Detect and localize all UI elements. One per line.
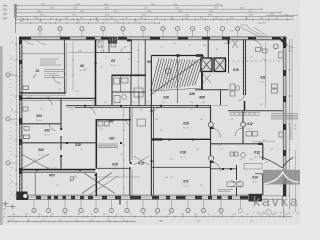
left grid bubbles — [6, 73, 10, 77]
door arc room010 south — [238, 95, 244, 101]
shaft box east — [214, 58, 226, 72]
dim circle 3 — [14, 11, 17, 14]
bottom wall column — [88, 196, 93, 200]
grid bubble wall 1 — [208, 122, 213, 127]
grid bubble bottom — [111, 200, 113, 208]
right wall dim extension — [283, 200, 285, 218]
bottom wall column — [54, 196, 58, 200]
wall x65 rooms 01-08 — [63, 40, 65, 93]
top dimension leader stack — [15, 4, 17, 33]
fixture room204 left — [23, 107, 28, 111]
grid bubble top — [175, 27, 179, 31]
top wall pier — [272, 37, 279, 40]
grid bubble bottom — [171, 200, 173, 208]
stair run diagonal — [151, 59, 202, 96]
bottom wall column — [152, 196, 159, 200]
shaft room door swings — [203, 74, 211, 83]
bottom wall column — [228, 196, 232, 200]
grid bubble bottom — [95, 200, 97, 208]
radiator left wall 1 — [23, 86, 29, 90]
left corridor wall y170.5 — [20, 169, 96, 171]
room 016 big X door mark — [82, 173, 112, 194]
left wall pier — [19, 95, 22, 100]
door 013 — [211, 162, 221, 172]
partition x35 room P07 — [34, 172, 36, 196]
grid bubble top — [161, 27, 165, 31]
dimension line — [17, 12, 281, 14]
top wall pier — [118, 37, 127, 40]
dim line room011 — [265, 42, 267, 108]
grid bubble top — [80, 27, 84, 31]
shaft box west — [201, 58, 212, 72]
pier wall x228 top — [228, 40, 230, 45]
stair wall pier — [196, 54, 203, 57]
right wing wall y111 — [228, 110, 283, 112]
wall x220.5 below shafts — [220, 90, 222, 106]
wall x228.5 shaft east — [228, 40, 230, 74]
corner leader text — [287, 46, 295, 48]
shaft south wall x202 — [201, 72, 203, 91]
stair south landing line — [151, 88, 203, 91]
grid bubble bottom — [157, 200, 159, 208]
fixture right wall — [279, 132, 283, 137]
dimension line — [17, 8, 262, 10]
grid bubble top — [190, 27, 194, 31]
bottom wall column — [115, 196, 121, 200]
left wall inner sill — [22, 44, 24, 196]
level mark 1 — [3, 203, 9, 205]
counter boxes y112.5 — [230, 112, 234, 115]
bottom wall column — [240, 196, 248, 200]
dim circle 4 — [14, 15, 17, 18]
corridor door X mark — [134, 156, 150, 165]
grid bubble bottom — [48, 200, 50, 208]
rooms 012/013 wall y144 — [211, 143, 264, 145]
window arcs top-left — [24, 40, 34, 45]
note text block room 01 — [40, 58, 59, 60]
top wall pier — [86, 37, 95, 40]
grid bubble x243 — [241, 122, 246, 127]
fixture room203 — [24, 127, 29, 131]
bottom wall column — [130, 196, 141, 200]
chain dimension line top — [16, 19, 294, 21]
grid bubble bottom — [187, 200, 189, 208]
wall x109 top rooms — [108, 40, 110, 53]
top wall pier — [222, 37, 230, 40]
wall x95.5 upper — [95, 40, 97, 107]
wall x96.5 lower — [95, 120, 97, 169]
top wall pier — [248, 37, 256, 40]
wall x263 lower-right — [262, 144, 264, 160]
left exterior wall — [19, 37, 22, 200]
mid room wall y168.5 — [96, 167, 131, 169]
corridor dim line x138.5 — [138, 42, 140, 103]
wall x145 corridor west upper — [144, 40, 146, 107]
right dimension chains — [289, 39, 291, 210]
dimension line — [17, 15, 293, 17]
right wall pier — [283, 70, 286, 76]
left margin tiny marks — [3, 5, 8, 7]
shaft feeder wall x208 — [207, 40, 209, 59]
radiator room 013 — [227, 182, 243, 187]
door symbol room 013 — [230, 152, 234, 156]
note text top-right — [271, 113, 298, 115]
bottom wall column — [48, 196, 52, 200]
corner column block — [17, 192, 28, 201]
right wall pier — [283, 96, 286, 102]
top wall pier — [60, 37, 70, 40]
wall x210.5 right wing — [210, 106, 212, 196]
double door arcs above watermark — [261, 157, 282, 168]
grid bubble bottom — [126, 200, 128, 208]
door arc room203 — [49, 124, 56, 131]
door arc x243 — [235, 128, 243, 136]
bottom wall column — [195, 196, 202, 200]
bottom-right corner block — [249, 194, 263, 202]
left rooms wall y143 — [20, 142, 96, 144]
partition y52.5 rooms05 — [96, 52, 131, 54]
top wall sill line — [20, 39, 286, 41]
left wall pier — [19, 60, 22, 64]
chain dimension bottom 2 — [8, 221, 136, 223]
top exterior wall — [20, 37, 286, 40]
bath cell dividers — [120, 76, 122, 93]
door arcs top-center rooms — [98, 47, 104, 53]
top wall pier — [178, 37, 188, 40]
dim circle 1 — [14, 4, 17, 7]
corridor wall y106 — [66, 105, 211, 107]
left dimension chain — [15, 37, 17, 200]
watermark tagline circle — [266, 209, 272, 215]
bottom wall column — [102, 196, 107, 200]
corner grid bubble — [23, 193, 28, 198]
grid bubble top — [205, 27, 209, 31]
grid bubble top — [58, 27, 62, 31]
wc fixtures top — [98, 41, 103, 47]
wall x61 mid-left — [60, 98, 62, 128]
top wall pier — [202, 37, 210, 40]
label 01 arrow — [33, 74, 36, 78]
left rooms wall y124 — [20, 123, 61, 125]
right wall pier — [283, 37, 286, 48]
door arc top-right room — [251, 40, 262, 51]
door jamb blocks — [60, 128, 62, 130]
right wall pier — [283, 178, 286, 196]
wall x236.5 room014 — [236, 165, 238, 180]
beam dashed line rooms 010-011 — [228, 60, 283, 62]
grid bubble room011 — [274, 44, 279, 49]
room dim line x123.5 — [123, 108, 125, 195]
wall x130 lower double — [129, 107, 131, 162]
door gap arcs corridor — [88, 107, 95, 114]
chain dimension bottom 1 — [8, 216, 292, 218]
door symbol P07 — [70, 177, 74, 181]
door arc left room y75 — [53, 75, 61, 83]
dim circle 2 — [14, 8, 17, 11]
tiny text room014 — [218, 189, 233, 191]
room08 dim line x73 — [72, 42, 74, 90]
bottom wall column — [176, 196, 186, 200]
corridor-stair wall x151.5 — [150, 56, 152, 196]
left wing wall y98.3 — [20, 97, 96, 99]
wc duct block top — [108, 37, 117, 43]
left wall pier — [19, 37, 22, 44]
top-right leader annotations — [240, 27, 260, 37]
bottom wall column — [166, 196, 170, 200]
top-right corner chamfer — [279, 38, 287, 46]
rooms 018/017 wall y167.5 — [151, 166, 210, 168]
grid bubble top — [235, 27, 239, 31]
grid bubble top — [38, 27, 42, 31]
level mark 2 — [10, 206, 16, 208]
grid bubble top — [141, 27, 145, 31]
left scan edge band — [0, 46, 3, 225]
fixtures 012 — [246, 132, 252, 137]
right wall pier — [283, 124, 286, 130]
grid bubble bottom — [203, 200, 205, 208]
stair landing wall x177.5 — [177, 57, 179, 103]
bath cluster wall y75.5 — [112, 74, 147, 76]
right exterior wall — [283, 37, 286, 196]
door arc room204 — [45, 98, 52, 105]
wall y174 stub — [255, 173, 263, 175]
grid bubble bottom — [142, 200, 144, 208]
bottom wall column — [208, 196, 212, 200]
left wall pier — [19, 139, 22, 145]
top wall pier — [101, 37, 108, 40]
left wing wall y93 — [20, 92, 66, 94]
interior dim line y52.3 — [68, 51, 110, 53]
door room201 — [124, 120, 130, 127]
stair wall pier mid — [176, 54, 179, 57]
left wall pier — [19, 168, 22, 174]
radiator left wall 2 — [24, 135, 30, 139]
door swing room010 top — [232, 40, 238, 49]
sink rects room011 top — [256, 48, 261, 52]
bottom wall column — [217, 196, 222, 200]
bottom wall column — [20, 196, 29, 200]
right wall pier — [283, 150, 286, 156]
door X room014 — [231, 180, 241, 188]
counter room014 — [244, 164, 262, 170]
grid bubble top — [121, 27, 125, 31]
bottom wall column — [71, 196, 75, 200]
grid bubble wall 2 — [209, 156, 214, 161]
bath fixtures — [114, 78, 120, 84]
bath wall x112 — [111, 75, 113, 106]
bottom wall column — [80, 196, 84, 200]
watermark bird mark — [264, 172, 298, 184]
partition y53.3 left room faint — [20, 52, 64, 54]
left wall pier — [19, 192, 22, 200]
bottom wall column — [63, 196, 67, 200]
dimension line — [17, 5, 222, 7]
bath partition y92 — [112, 91, 145, 93]
bottom wall column — [36, 196, 41, 200]
grid bubble bottom — [33, 200, 35, 208]
stair treads hatch — [151, 58, 160, 91]
stair-shaft connector x203 — [202, 56, 204, 59]
watermark logo plate — [263, 170, 300, 185]
wall x131.5 upper — [130, 40, 132, 76]
stair north wall — [151, 55, 203, 57]
wall x243 room 012 — [242, 111, 244, 122]
bottom wall inner sill — [20, 194, 262, 196]
grid bubble bottom — [220, 200, 222, 208]
secondary chain dimension top — [16, 22, 161, 24]
shaft room south wall y90 — [195, 89, 229, 91]
room 202 X door mark — [21, 154, 49, 169]
fixture below corner — [279, 52, 284, 58]
grid bubble top — [101, 27, 105, 31]
bottom exterior wall — [20, 196, 262, 199]
door mark x120 bottom — [119, 200, 121, 205]
stair direction bubble — [165, 68, 170, 73]
grid bubble bottom — [80, 200, 82, 208]
fixtures room011 — [272, 84, 278, 88]
note text block room 201 — [98, 143, 119, 145]
grid bubble top — [220, 27, 224, 31]
grid bubble bottom extra — [240, 200, 242, 208]
door 012 — [211, 128, 221, 138]
pier top wall x127-131 — [127, 39, 131, 41]
room 010/011 dividing wall x244.5 hatched — [242, 40, 244, 96]
top wall pier — [20, 37, 31, 40]
grid bubble bottom — [64, 200, 66, 208]
bath wall x131 lower — [130, 76, 132, 107]
fixtures room010 — [230, 84, 235, 90]
shelf line y177 mid room — [98, 176, 141, 178]
rooms 013/014 wall y169 — [211, 168, 237, 170]
left wall pier — [19, 118, 22, 124]
corridor wall y120 — [96, 119, 131, 121]
wall stub y139.5 room 019 — [151, 138, 210, 140]
leader text y142 — [252, 140, 275, 142]
fixtures room201 — [98, 122, 103, 127]
duct shaft corridor — [137, 119, 146, 126]
top wall pier — [150, 37, 160, 40]
